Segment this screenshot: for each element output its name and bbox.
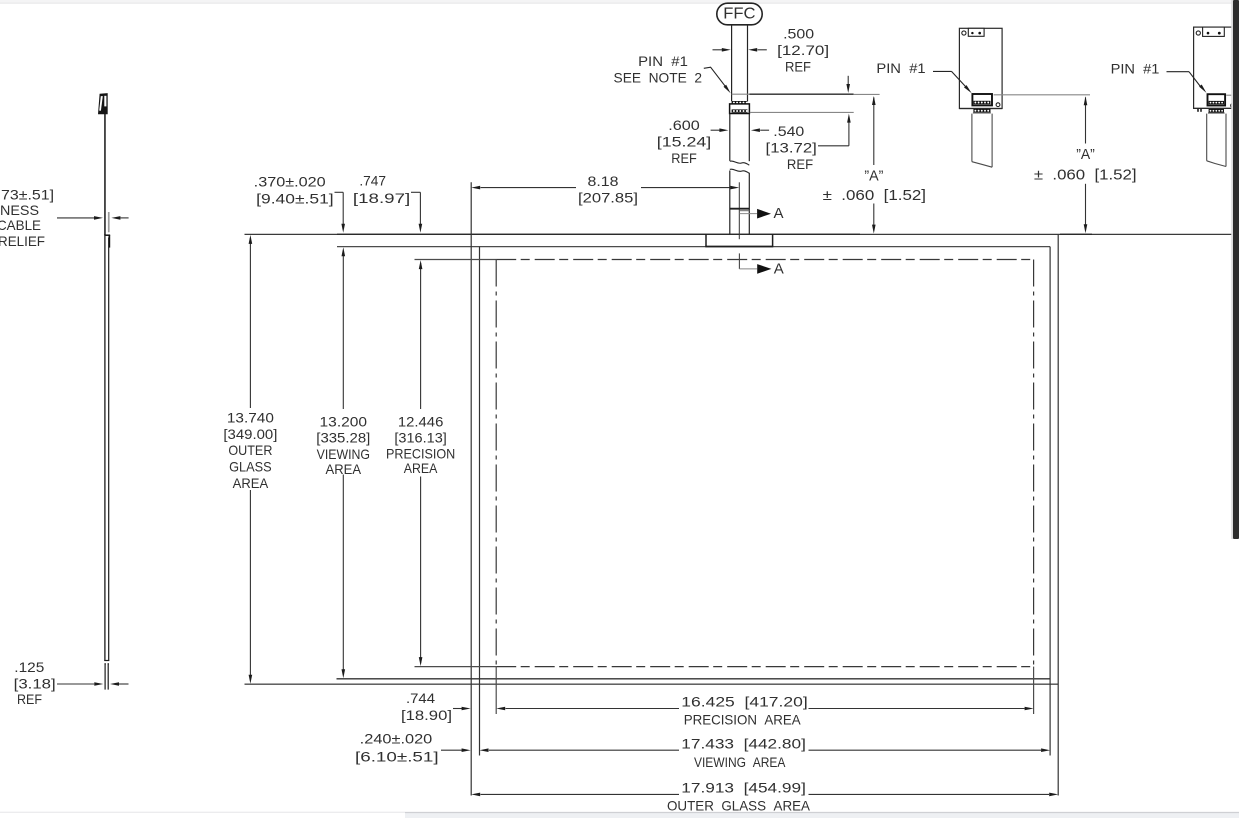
- dimension "A" +/- .060 left: [823, 96, 926, 234]
- svg-text:17.433 [442.80]: 17.433 [442.80]: [681, 735, 806, 751]
- svg-text:PIN #1: PIN #1: [638, 53, 688, 69]
- section A-A cut line lower: [739, 253, 783, 277]
- leader PIN #1 SEE NOTE 2: [614, 53, 731, 93]
- svg-text:REF: REF: [17, 691, 42, 707]
- middle connector block: [972, 94, 992, 105]
- dimension 12.446 [316.13] PRECISION AREA: [386, 260, 455, 666]
- svg-text:[18.90]: [18.90]: [401, 707, 452, 723]
- middle PCB mounting hole: [962, 31, 966, 35]
- svg-text:12.446: 12.446: [398, 413, 444, 429]
- dimension .747 leader arrow: [353, 173, 422, 233]
- svg-text:.240±.020: .240±.020: [360, 731, 433, 747]
- side view glass edge: [104, 235, 110, 661]
- FFC connector bottom extension line: [750, 111, 854, 113]
- svg-text:AREA: AREA: [404, 460, 438, 476]
- svg-text:.747: .747: [359, 173, 386, 189]
- bottom page edge strip: [0, 812, 1239, 818]
- svg-text:.540: .540: [773, 123, 804, 139]
- svg-text:PRECISION: PRECISION: [386, 445, 455, 461]
- dimension 13.200 [335.28] VIEWING AREA: [316, 247, 370, 678]
- right connector reference line: [1226, 94, 1233, 96]
- svg-text:.125: .125: [14, 659, 44, 675]
- svg-text:[9.40±.51]: [9.40±.51]: [256, 191, 334, 207]
- dimension 17.433 [442.80] VIEWING AREA: [480, 735, 1051, 770]
- middle PCB top box with pads: [968, 28, 984, 36]
- svg-text:.500: .500: [783, 26, 814, 42]
- dimension .744 [18.90]: [401, 690, 471, 723]
- precision area bottom edge (dash-dot): [415, 666, 1034, 668]
- FFC centerline: [738, 182, 740, 239]
- right connector block: [1208, 94, 1226, 105]
- svg-text:[6.10±.51]: [6.10±.51]: [355, 748, 439, 764]
- FFC connector contact row 1: [732, 101, 748, 104]
- middle connector PCB outline: [959, 28, 1002, 108]
- svg-text:[349.00]: [349.00]: [223, 426, 277, 442]
- viewing area top edge: [337, 246, 1050, 248]
- dimension thickness w/ cable relief (clipped labels): [0, 187, 129, 250]
- precision area right edge (dash-dot) + extension: [1033, 260, 1035, 715]
- dimension .540 [13.72] REF: [766, 114, 851, 172]
- svg-text:[18.97]: [18.97]: [353, 190, 410, 206]
- svg-text:PIN #1: PIN #1: [876, 60, 926, 76]
- leader PIN #1 middle: [876, 60, 971, 93]
- FFC connector contact row 2: [732, 109, 748, 112]
- svg-text:REF: REF: [787, 156, 813, 172]
- svg-text:GLASS: GLASS: [229, 459, 272, 475]
- svg-text:[335.28]: [335.28]: [316, 430, 370, 446]
- right page black bar: [1231, 0, 1239, 539]
- side view thickness extension bar: [108, 212, 110, 232]
- side view cable: [104, 114, 106, 235]
- outer glass top edge: [245, 233, 1234, 235]
- svg-text:AREA: AREA: [233, 475, 269, 491]
- dimension "A" +/- .060 right: [1034, 96, 1137, 233]
- right connector contact row below board: [1208, 109, 1225, 114]
- dimension .125 [3.18] REF: [14, 659, 129, 707]
- svg-text:.600: .600: [668, 117, 700, 133]
- svg-text:[316.13]: [316.13]: [394, 430, 446, 446]
- svg-text:REF: REF: [671, 150, 697, 166]
- viewing area bottom edge: [337, 678, 1051, 680]
- right PCB feet pads: [1197, 108, 1202, 111]
- precision area top edge (dash-dot): [415, 259, 1034, 261]
- svg-text:± .060 [1.52]: ± .060 [1.52]: [1034, 166, 1137, 183]
- right PCB lower mounting hole: [1231, 104, 1235, 108]
- outer glass right edge + extension: [1057, 234, 1059, 795]
- svg-text:A: A: [774, 205, 784, 222]
- right connector PCB outline: [1194, 27, 1233, 108]
- middle view cable: [972, 114, 992, 168]
- svg-text:73±.51]: 73±.51]: [1, 187, 54, 203]
- dimension 8.18 [207.85]: [471, 173, 739, 206]
- dimension .240 [6.10]: [355, 731, 471, 765]
- svg-text:[3.18]: [3.18]: [14, 676, 56, 692]
- dimension .600 [15.24] REF: [657, 117, 769, 166]
- svg-text:.370±.020: .370±.020: [254, 173, 326, 189]
- svg-text:17.913 [454.99]: 17.913 [454.99]: [681, 780, 806, 796]
- right PCB mounting hole: [1196, 31, 1200, 35]
- svg-text:”A”: ”A”: [1076, 146, 1095, 163]
- svg-text:RELIEF: RELIEF: [0, 233, 45, 249]
- dimension 17.913 [454.99] OUTER GLASS AREA: [471, 780, 1058, 814]
- svg-text:REF: REF: [785, 58, 811, 74]
- middle connector reference line to A dim: [994, 94, 1090, 96]
- svg-text:13.740: 13.740: [227, 410, 274, 426]
- svg-text:FFC: FFC: [723, 6, 755, 23]
- side view FFC connector: [98, 93, 108, 114]
- svg-text:AREA: AREA: [326, 461, 362, 477]
- viewing area left edge + extension: [479, 247, 481, 756]
- FFC tab on glass: [705, 234, 773, 246]
- outer glass bottom edge: [245, 683, 1059, 685]
- outer glass left edge + extension: [470, 182, 472, 795]
- section A-A cut line upper: [730, 205, 784, 222]
- svg-text:13.200: 13.200: [320, 413, 368, 429]
- svg-text:A: A: [774, 260, 784, 277]
- svg-text:± .060 [1.52]: ± .060 [1.52]: [823, 187, 926, 204]
- FFC connector top line: [732, 93, 880, 95]
- dimension .370 leader arrow: [254, 173, 345, 233]
- svg-text:NESS: NESS: [0, 202, 39, 218]
- middle PCB lower mounting hole: [996, 103, 1000, 107]
- svg-text:PIN #1: PIN #1: [1111, 60, 1160, 76]
- side view bottom tail: [104, 664, 109, 690]
- svg-text:[15.24]: [15.24]: [657, 134, 712, 150]
- dimension .500 [12.70] REF: [713, 26, 851, 93]
- FFC balloon label: [717, 3, 762, 25]
- svg-text:PRECISION AREA: PRECISION AREA: [684, 712, 802, 728]
- FFC cable upper segment: [732, 25, 748, 102]
- svg-text:[12.70]: [12.70]: [777, 42, 829, 58]
- svg-text:”A”: ”A”: [864, 167, 883, 184]
- svg-text:8.18: 8.18: [588, 173, 619, 189]
- top page edge line: [0, 0, 1239, 3]
- svg-text:CABLE: CABLE: [0, 217, 41, 233]
- svg-text:VIEWING AREA: VIEWING AREA: [694, 754, 786, 770]
- FFC connector body: [730, 104, 750, 114]
- svg-text:16.425 [417.20]: 16.425 [417.20]: [681, 694, 807, 710]
- FFC cable lower segment with break: [730, 114, 750, 235]
- svg-text:OUTER: OUTER: [228, 442, 272, 458]
- svg-text:SEE NOTE 2: SEE NOTE 2: [614, 69, 703, 85]
- middle PCB bottom edge: [959, 108, 1002, 110]
- svg-text:[13.72]: [13.72]: [766, 139, 817, 155]
- svg-text:OUTER GLASS AREA: OUTER GLASS AREA: [667, 798, 811, 814]
- right view cable: [1207, 114, 1226, 167]
- svg-text:.744: .744: [406, 690, 435, 706]
- middle connector contact row below board: [973, 109, 991, 114]
- right PCB top box with pads: [1203, 27, 1225, 36]
- dimension 13.740 [349.00] OUTER GLASS AREA: [223, 235, 277, 684]
- dimension 16.425 [417.20] PRECISION AREA: [496, 694, 1033, 728]
- viewing area right edge + extension: [1049, 247, 1051, 756]
- leader PIN #1 right: [1111, 60, 1207, 93]
- svg-text:[207.85]: [207.85]: [578, 190, 638, 206]
- precision area left edge (dash-dot) + extension: [495, 260, 497, 715]
- svg-text:VIEWING: VIEWING: [317, 446, 370, 462]
- right PCB bottom edge: [1194, 107, 1233, 109]
